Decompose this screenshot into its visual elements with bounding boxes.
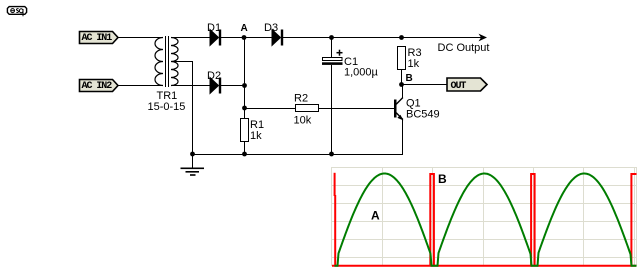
esp logo	[7, 7, 26, 17]
svg-text:1,000µ: 1,000µ	[344, 67, 379, 79]
svg-text:A: A	[241, 23, 248, 34]
node C1 top	[329, 35, 334, 40]
svg-text:B: B	[406, 73, 413, 84]
transformer TR1	[148, 36, 186, 113]
grid horizontal lines	[332, 167, 637, 169]
wire node A down to R1/R2 node	[244, 38, 246, 109]
wire TR1 secondary top to D1	[171, 37, 210, 39]
svg-text:AC IN2: AC IN2	[82, 81, 113, 92]
svg-text:B: B	[438, 172, 447, 186]
wire R2 to Q1 base	[319, 108, 395, 110]
svg-text:OUT: OUT	[451, 81, 467, 92]
DC Output arrowhead	[438, 34, 490, 54]
resistor R2	[294, 93, 319, 127]
primary winding	[155, 38, 163, 86]
ground symbol	[181, 155, 205, 176]
core	[165, 36, 167, 87]
node B	[399, 73, 413, 87]
pulse B4 (right edge)	[631, 174, 636, 266]
wire node A to D3	[244, 37, 272, 39]
pulse B1 (left edge)	[334, 173, 336, 196]
diode D1	[207, 22, 221, 46]
svg-text:AC IN1: AC IN1	[82, 33, 113, 44]
wire D1 to node A	[221, 37, 244, 39]
svg-text:10k: 10k	[294, 115, 312, 127]
resistor R1	[241, 109, 265, 155]
resistor R3	[398, 47, 422, 85]
wire node B to OUT tag	[402, 84, 448, 86]
wire TR1 secondary bottom to D2	[171, 85, 210, 87]
node D2 junction	[242, 83, 247, 88]
grid vertical lines	[331, 167, 333, 266]
diode D2	[207, 70, 221, 94]
red baseline	[332, 265, 637, 267]
svg-text:15-0-15: 15-0-15	[148, 101, 186, 113]
capacitor C1	[322, 38, 379, 155]
pulse B2	[430, 174, 434, 266]
wire AC IN2 to TR1 primary bottom	[118, 85, 163, 87]
svg-text:1k: 1k	[408, 58, 420, 70]
svg-text:BC549: BC549	[406, 109, 440, 121]
wire D2 to node	[221, 85, 244, 87]
svg-text:1k: 1k	[250, 130, 262, 142]
node C1 bottom	[329, 152, 334, 157]
svg-text:D1: D1	[207, 22, 221, 34]
tag OUT	[447, 78, 487, 92]
node R1 bottom	[242, 152, 247, 157]
secondary winding	[171, 38, 178, 86]
waveform chart	[332, 167, 637, 266]
svg-text:DC Output: DC Output	[438, 42, 490, 54]
svg-text:A: A	[371, 209, 380, 223]
svg-text:R2: R2	[294, 93, 308, 105]
ground rail wire	[193, 154, 404, 156]
svg-text:D2: D2	[207, 70, 221, 82]
wire AC IN1 to TR1 primary top	[118, 37, 163, 39]
wire D3 to DC output arrow	[283, 37, 484, 39]
diode D3	[264, 22, 283, 46]
node ground rail left	[190, 152, 195, 157]
wire node to R2	[245, 108, 296, 110]
transistor Q1	[394, 85, 440, 155]
node A	[241, 23, 248, 40]
tag AC IN2	[80, 80, 119, 93]
svg-text:D3: D3	[264, 22, 278, 34]
center tap wire	[171, 62, 193, 155]
pulse B3	[531, 174, 535, 266]
waveform trace A (green rectified sine)	[335, 174, 637, 266]
waveform trace B (red pulses)	[332, 173, 637, 266]
node R1/R2 junction	[242, 106, 247, 111]
node R3 top	[399, 35, 404, 40]
tag AC IN1	[80, 32, 119, 45]
